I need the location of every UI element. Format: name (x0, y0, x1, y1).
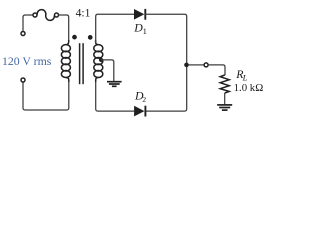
transformer T secondary winding (94, 40, 103, 82)
svg-text:L: L (242, 73, 248, 83)
fuse F1 (33, 10, 59, 21)
wire: secondary top to D1 anode (96, 14, 135, 44)
polarity dot primary (72, 35, 77, 40)
svg-text:1: 1 (143, 26, 147, 36)
wire: junction to output terminal (189, 64, 205, 66)
wire: resistor to ground (224, 93, 226, 104)
ground (load) (217, 105, 232, 110)
wire: fuse to transformer primary top (59, 15, 69, 42)
source terminal top (open circle) (21, 32, 25, 36)
junction dot (output node) (184, 63, 189, 68)
wire: primary bottom to bottom-left terminal (23, 82, 69, 110)
output terminal (open circle) (204, 63, 208, 67)
transformer T primary winding (61, 40, 70, 82)
transformer core (80, 43, 84, 84)
center-tap junction dot (99, 58, 103, 62)
polarity dot secondary (88, 35, 93, 40)
ground (center tap) (107, 82, 122, 87)
diode D1 (134, 9, 145, 20)
resistor RL zigzag (220, 75, 229, 93)
wire: terminal to resistor (208, 65, 225, 75)
diode D2 (134, 106, 145, 117)
wire: D1 cathode to right rail (down to D2) (145, 14, 186, 111)
svg-text:120 V rms: 120 V rms (2, 54, 52, 68)
source terminal bottom (open circle) (21, 78, 25, 82)
wire: center tap to ground (101, 60, 114, 81)
svg-text:1.0 kΩ: 1.0 kΩ (234, 82, 264, 94)
wire: secondary bottom to D2 anode (96, 82, 135, 111)
svg-text:2: 2 (142, 95, 146, 104)
wire: top-left terminal to fuse (23, 15, 33, 31)
svg-text:4:1: 4:1 (76, 7, 91, 20)
